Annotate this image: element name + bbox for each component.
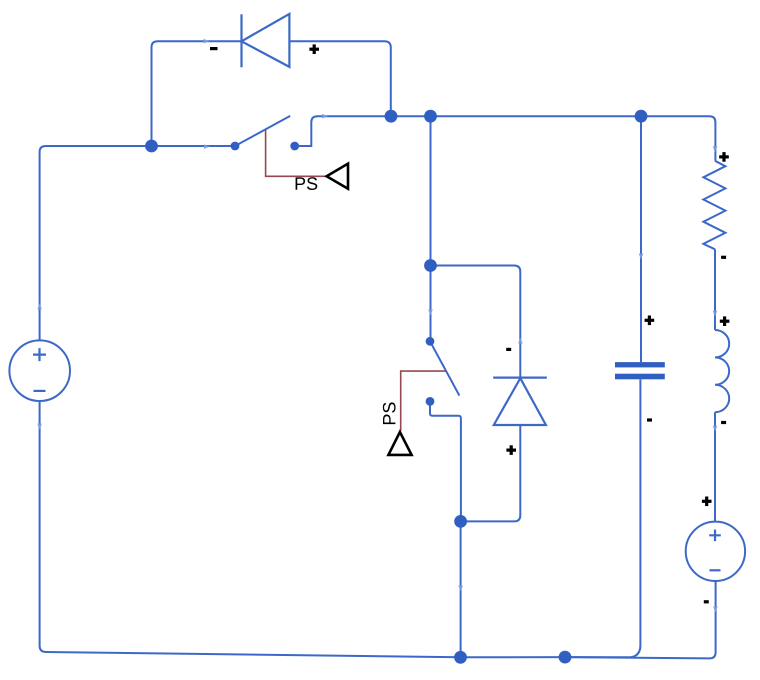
- resistor R1: [703, 161, 725, 250]
- diode D1: [242, 14, 290, 67]
- wire arrow: [458, 586, 463, 592]
- wire arrow: [713, 311, 718, 317]
- node H: [635, 110, 648, 123]
- node B: [424, 259, 437, 272]
- label - (L1): [721, 421, 726, 424]
- wire arrow: [322, 114, 328, 119]
- wire: [430, 406, 461, 522]
- wire: [152, 145, 232, 147]
- wire arrow: [713, 146, 718, 152]
- wire: [430, 266, 432, 338]
- inductor L1: [715, 330, 729, 412]
- wire arrow: [713, 426, 718, 432]
- pulse source PS1: [296, 164, 348, 190]
- wire: [289, 41, 390, 116]
- label + (L1): [720, 316, 730, 326]
- switch S1: [231, 116, 300, 151]
- wire arrow: [37, 303, 42, 309]
- wire: [565, 581, 716, 658]
- switch S2: [426, 337, 460, 406]
- wire: [461, 425, 521, 521]
- wire arrow: [428, 310, 433, 316]
- wire arrow: [713, 606, 718, 612]
- label - (R1): [721, 256, 726, 259]
- label - (D1): [210, 47, 218, 50]
- node D: [454, 651, 467, 664]
- wire: [565, 379, 640, 657]
- wire: [299, 116, 317, 146]
- wire: [152, 41, 241, 146]
- wire arrow: [204, 39, 210, 44]
- label - (V2): [704, 600, 709, 603]
- wire: [640, 116, 642, 362]
- wire: [460, 521, 462, 657]
- wire: [40, 401, 461, 657]
- label + (D1): [309, 44, 319, 54]
- node A: [145, 140, 158, 153]
- control wire: [401, 371, 446, 431]
- label - (C1): [647, 418, 652, 421]
- wire arrow: [37, 424, 42, 430]
- wire: [714, 249, 716, 330]
- label + (R1): [719, 152, 729, 162]
- wire: [431, 266, 521, 378]
- node F: [385, 110, 398, 123]
- wire arrow: [518, 338, 523, 344]
- label + (D2): [506, 445, 516, 455]
- label + (C1): [645, 316, 655, 326]
- diode D2: [493, 378, 547, 425]
- voltage source V1: [9, 340, 70, 401]
- wire arrow: [204, 144, 210, 149]
- label + (V2): [702, 497, 712, 507]
- node G: [424, 110, 437, 123]
- capacitor C1: [615, 362, 665, 379]
- wire: [40, 146, 152, 341]
- wire: [430, 116, 432, 265]
- node C: [454, 515, 467, 528]
- wire: [317, 116, 715, 161]
- node E: [559, 651, 572, 664]
- label - (D2): [506, 348, 511, 351]
- wire: [714, 412, 716, 521]
- wire: [461, 656, 566, 658]
- wire arrow: [639, 254, 644, 260]
- voltage source V2: [686, 522, 745, 581]
- pulse source PS2: [383, 402, 412, 454]
- control wire: [266, 130, 326, 177]
